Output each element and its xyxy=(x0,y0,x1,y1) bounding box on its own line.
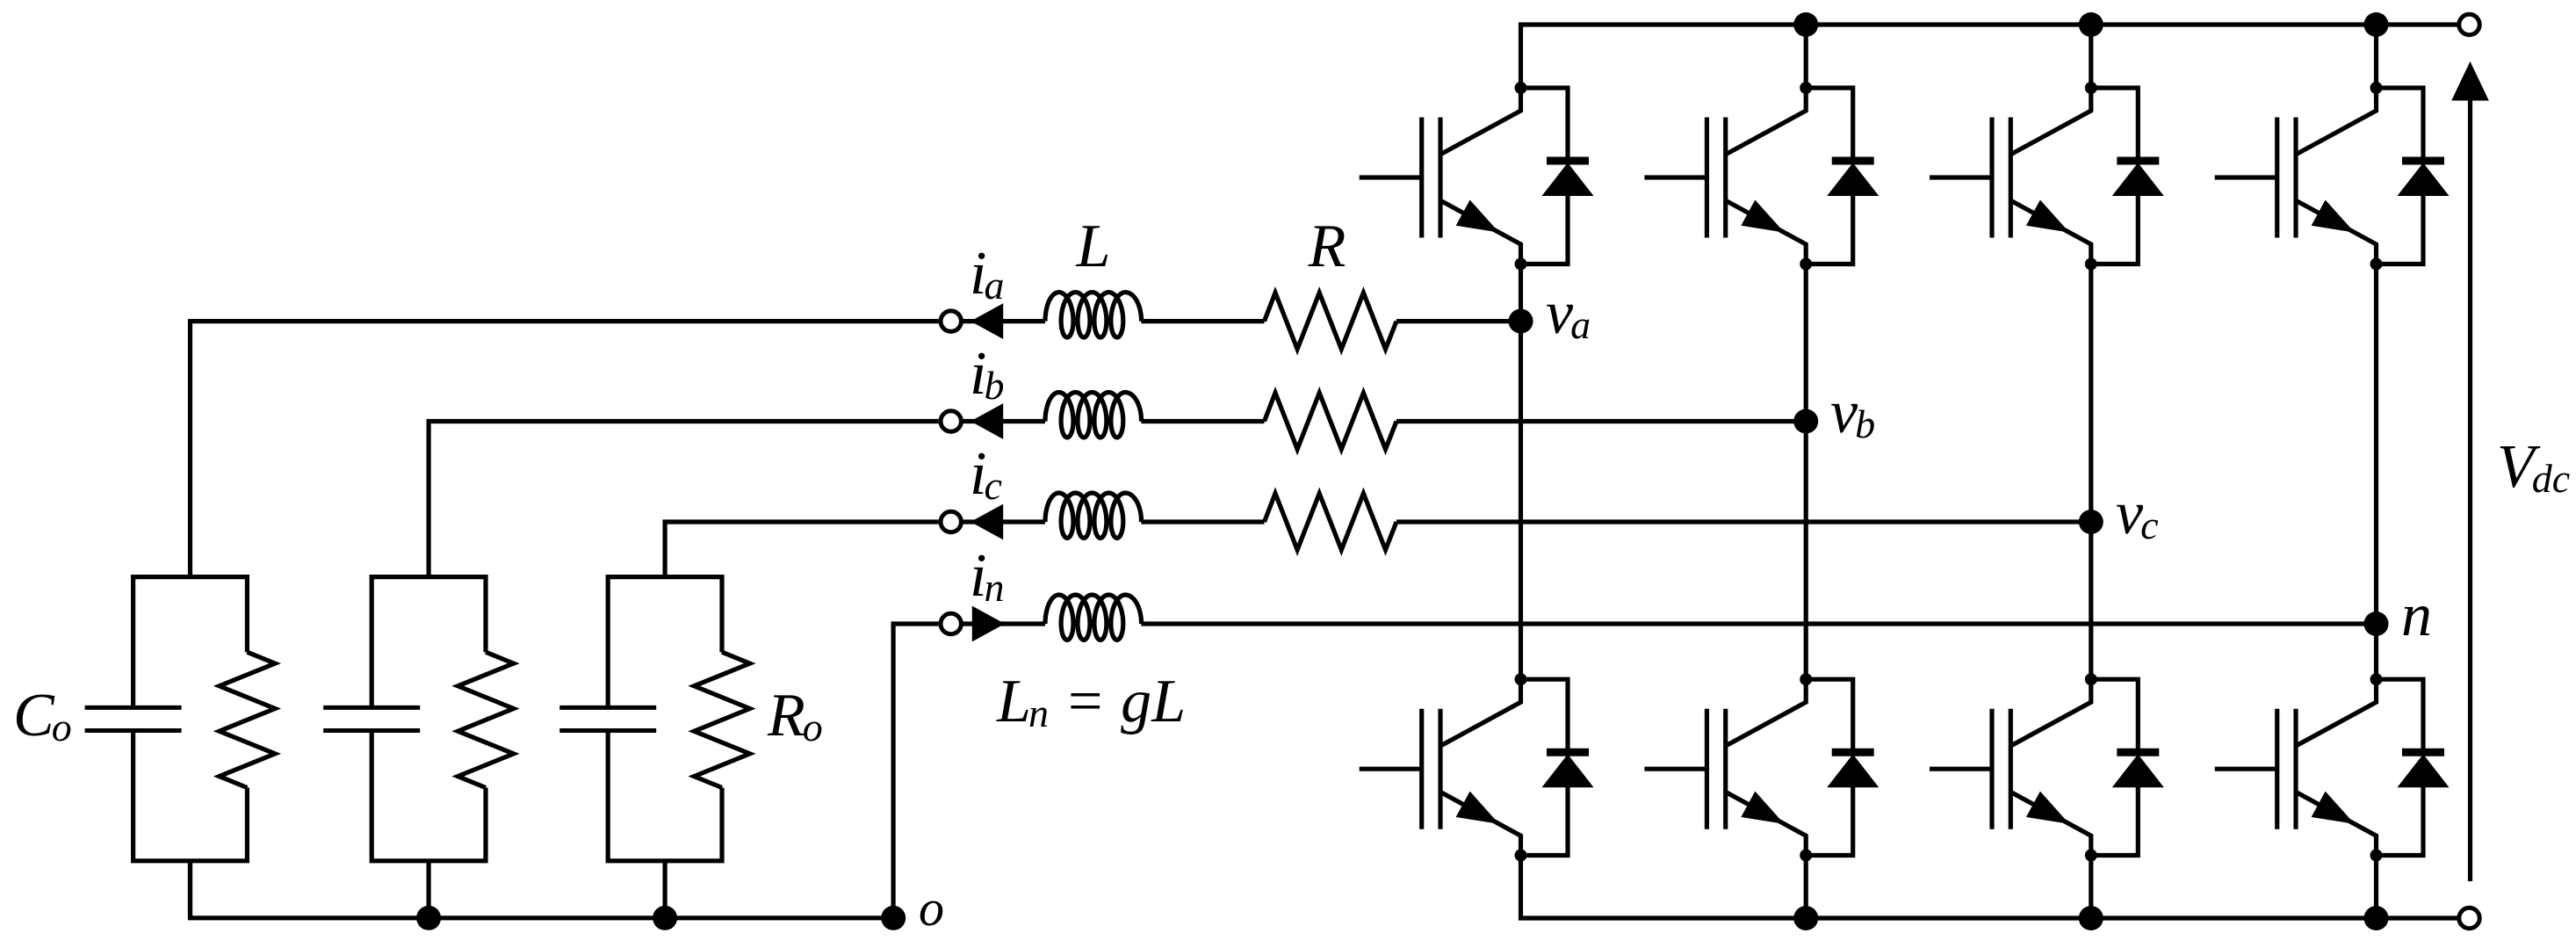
svg-text:n: n xyxy=(2401,582,2432,649)
svg-text:L: L xyxy=(1076,213,1111,280)
svg-text:Ln = gL: Ln = gL xyxy=(996,668,1186,735)
svg-text:R: R xyxy=(1308,213,1346,280)
svg-text:o: o xyxy=(919,879,944,937)
